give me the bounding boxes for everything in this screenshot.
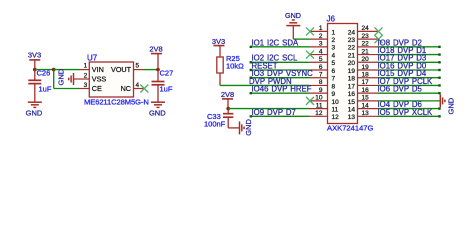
junction node 2V8/C33 (226, 107, 230, 111)
svg-text:1: 1 (319, 25, 323, 32)
pin 15 right (358, 100, 378, 102)
svg-text:NC: NC (121, 84, 131, 93)
svg-text:21: 21 (348, 52, 356, 59)
wire net IO4 DVP D6 (378, 108, 441, 110)
svg-text:CE: CE (92, 84, 102, 93)
pin 17 right (358, 84, 378, 86)
svg-text:IO5 DVP XCLK: IO5 DVP XCLK (378, 108, 434, 117)
svg-text:17: 17 (348, 83, 356, 90)
pin 22 right (358, 46, 378, 48)
svg-text:2: 2 (319, 33, 323, 40)
svg-text:VSS: VSS (92, 74, 107, 83)
wire net IO46 DVP HREF (251, 92, 310, 94)
svg-text:5: 5 (319, 56, 323, 63)
svg-text:19: 19 (362, 64, 370, 71)
pin 2 left (309, 38, 328, 40)
junction node 3V3/C26 (33, 68, 37, 72)
pin 24 right (358, 30, 378, 32)
wire pin 15 to GND (378, 100, 441, 102)
wire to pin CE (54, 88, 80, 90)
pin 2 VSS (79, 78, 89, 80)
svg-text:20: 20 (362, 56, 370, 63)
wire 2V8 to pin 11 (228, 108, 309, 110)
no-connect X pin 1 (306, 27, 314, 35)
svg-text:IO6 DVP D5: IO6 DVP D5 (378, 85, 423, 94)
wire net IO8 DVP D2 (378, 46, 441, 48)
no-connect X pin 24 (375, 27, 383, 35)
pin 6 left (309, 69, 328, 71)
pin 4 NC (134, 88, 144, 90)
pin 21 right (358, 54, 378, 56)
svg-text:20: 20 (348, 60, 356, 67)
svg-text:8: 8 (319, 79, 323, 86)
svg-text:GND: GND (57, 68, 66, 85)
wire net IO15 DVP D4 (378, 77, 441, 79)
wire net RESET (251, 69, 310, 71)
svg-text:6: 6 (332, 68, 336, 75)
svg-text:9: 9 (319, 87, 323, 94)
svg-text:22: 22 (362, 41, 370, 48)
pin 14 right (358, 108, 378, 110)
wire net IO2 I2C SCL (251, 61, 310, 63)
svg-text:14: 14 (348, 107, 356, 114)
svg-text:8: 8 (332, 83, 336, 90)
svg-text:21: 21 (362, 48, 370, 55)
svg-text:3V3: 3V3 (28, 51, 41, 60)
svg-text:2V8: 2V8 (221, 90, 234, 99)
svg-text:2: 2 (332, 37, 336, 44)
pin 7 left (309, 77, 328, 79)
pin 3 left (309, 46, 328, 48)
svg-text:12: 12 (315, 110, 323, 117)
svg-text:U7: U7 (87, 54, 98, 63)
junction node VIN/CE branch (52, 68, 56, 72)
svg-text:5: 5 (332, 60, 336, 67)
wire CE branch vertical (53, 70, 55, 89)
pin 1 VIN (79, 69, 89, 71)
svg-text:15: 15 (348, 99, 356, 106)
svg-text:GND: GND (26, 109, 43, 118)
pin 23 right (358, 38, 378, 40)
svg-text:VIN: VIN (92, 65, 104, 74)
svg-text:1uF: 1uF (39, 85, 52, 94)
svg-text:14: 14 (362, 102, 370, 109)
pin 12 left (309, 115, 328, 117)
svg-text:C26: C26 (37, 69, 51, 78)
junction node VOUT/2V8/C27 (156, 68, 160, 72)
svg-text:22: 22 (348, 45, 356, 52)
svg-text:4: 4 (319, 48, 323, 55)
svg-text:7: 7 (319, 72, 323, 79)
svg-text:3: 3 (319, 41, 323, 48)
svg-text:3: 3 (332, 45, 336, 52)
svg-text:ME6211C28M5G-N: ME6211C28M5G-N (84, 98, 149, 107)
svg-text:GND: GND (447, 97, 456, 114)
pin 4 left (309, 54, 328, 56)
svg-text:1: 1 (84, 63, 88, 70)
wire net IO17 DVP D3 (378, 61, 441, 63)
svg-text:24: 24 (348, 29, 356, 36)
svg-text:15: 15 (362, 95, 370, 102)
wire net IO7 DVP PCLK (378, 84, 441, 86)
no-connect X on NC pin (140, 85, 148, 93)
svg-text:23: 23 (362, 33, 370, 40)
svg-text:1uF: 1uF (160, 84, 173, 93)
pin 3 CE (79, 88, 89, 90)
wire net IO18 DVP D1 (378, 54, 441, 56)
pin 8 left (309, 84, 328, 86)
svg-text:IO46 DVP HREF: IO46 DVP HREF (252, 85, 312, 94)
svg-text:J6: J6 (327, 14, 336, 23)
connector J6 body (328, 24, 358, 124)
svg-text:9: 9 (332, 91, 336, 98)
svg-text:11: 11 (316, 102, 323, 109)
svg-text:10: 10 (315, 95, 323, 102)
regulator U7 body (89, 62, 133, 97)
wire net IO5 DVP XCLK (378, 115, 441, 117)
pin 16 right (358, 92, 378, 94)
svg-text:C27: C27 (160, 69, 174, 78)
ground below C26 (28, 101, 42, 103)
svg-text:23: 23 (348, 37, 356, 44)
pin 20 right (358, 61, 378, 63)
svg-text:12: 12 (332, 114, 340, 121)
wire VOUT to 2V8 (144, 69, 159, 71)
pin 13 right (358, 115, 378, 117)
wire to pin VIN (54, 69, 80, 71)
no-connect X pin 10 (306, 97, 314, 105)
wire R25 to DVP PWDN pin 8 (220, 84, 309, 86)
svg-text:5: 5 (136, 63, 140, 70)
svg-text:2V8: 2V8 (149, 45, 162, 54)
svg-text:1: 1 (332, 29, 336, 36)
pin 10 left (309, 100, 328, 102)
svg-text:10: 10 (332, 99, 340, 106)
svg-text:IO9 DVP D7: IO9 DVP D7 (252, 108, 296, 117)
svg-text:2: 2 (84, 72, 88, 79)
svg-text:6: 6 (319, 64, 323, 71)
capacitor C33 (227, 109, 229, 114)
pin 9 left (309, 92, 328, 94)
svg-text:17: 17 (362, 79, 370, 86)
svg-text:GND: GND (285, 11, 301, 20)
svg-text:3V3: 3V3 (212, 37, 225, 46)
svg-text:IO1 I2C SDA: IO1 I2C SDA (252, 38, 299, 47)
pin 1 left (309, 30, 328, 32)
pin 5 left (309, 61, 328, 63)
pin 11 left (309, 108, 328, 110)
svg-text:16: 16 (348, 91, 356, 98)
svg-text:4: 4 (332, 52, 336, 59)
pin 5 VOUT (134, 69, 144, 71)
svg-text:GND: GND (244, 119, 253, 136)
wire GND to pin 2 (293, 38, 309, 40)
capacitor C26 (34, 70, 36, 81)
ground right of pin 15 rotated (439, 94, 441, 107)
wire net IO1 I2C SDA (251, 46, 310, 48)
svg-text:11: 11 (332, 107, 339, 114)
ground at VSS pin rotated (74, 78, 80, 80)
svg-text:VOUT: VOUT (111, 65, 132, 74)
svg-text:16: 16 (362, 87, 370, 94)
no-connect X pin 4 (306, 51, 314, 59)
ground below C27 (151, 101, 165, 103)
capacitor C27 (157, 70, 159, 82)
svg-text:GND: GND (149, 109, 166, 118)
svg-text:13: 13 (348, 114, 356, 121)
svg-text:18: 18 (348, 76, 356, 83)
wire 3V3 to VIN (35, 69, 54, 71)
svg-text:AXK724147G: AXK724147G (327, 124, 374, 133)
svg-text:10kΩ: 10kΩ (226, 62, 244, 71)
pin 18 right (358, 77, 378, 79)
svg-text:7: 7 (332, 76, 336, 83)
wire net IO6 DVP D5 (378, 92, 441, 94)
svg-text:4: 4 (136, 82, 140, 89)
wire net IO9 DVP D7 (251, 115, 310, 117)
svg-text:13: 13 (362, 110, 370, 117)
svg-text:18: 18 (362, 72, 370, 79)
svg-text:19: 19 (348, 68, 356, 75)
svg-text:3: 3 (84, 82, 88, 89)
pin 19 right (358, 69, 378, 71)
no-connect X pin 23 (375, 35, 383, 43)
svg-text:100nF: 100nF (204, 120, 226, 129)
wire net IO3 DVP VSYNC (251, 77, 310, 79)
wire net IO16 DVP D0 (378, 69, 441, 71)
ground right of C33 rotated (239, 121, 241, 134)
svg-text:24: 24 (362, 25, 370, 32)
